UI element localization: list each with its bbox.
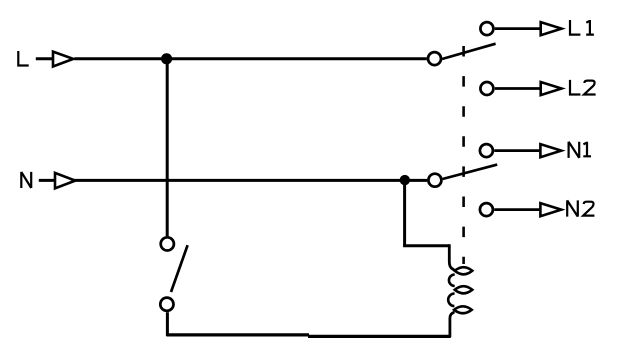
- relay contact RL-B blade: [443, 165, 498, 179]
- input arrow N: [55, 173, 75, 189]
- wire L1: [495, 27, 540, 30]
- switch S1 bottom contact circle: [160, 298, 173, 311]
- relay coil K1 loop 3: [454, 306, 472, 313]
- label N2: [567, 200, 594, 216]
- relay coil K1 link arc 2: [448, 293, 454, 306]
- wire N2: [494, 208, 539, 211]
- switch S1 top contact circle: [161, 237, 174, 250]
- mechanical linkage dashed line: [462, 46, 465, 264]
- wire bottom return left segment: [166, 333, 309, 336]
- wire vertical from L junction to switch S1: [166, 59, 169, 236]
- output arrow N1: [540, 144, 561, 157]
- output arrow L1: [541, 22, 562, 35]
- wire vertical from N junction down: [403, 180, 406, 246]
- wire bottom return right segment: [308, 335, 451, 338]
- relay contact RL-A blade: [442, 44, 496, 59]
- relay coil K1 link arc 1: [449, 275, 455, 287]
- relay coil K1 loop 1: [455, 267, 473, 274]
- output arrow N2: [540, 203, 561, 216]
- label L2: [570, 80, 596, 95]
- wire horizontal to relay coil: [403, 244, 449, 247]
- contact circle L1: [480, 22, 493, 35]
- output arrow L2: [541, 82, 562, 95]
- relay coil K1 loop 2: [455, 286, 473, 293]
- label N (input net N): [21, 172, 31, 188]
- contact circle N1: [480, 144, 493, 157]
- relay contact RL-B common circle: [428, 174, 441, 187]
- input arrow L: [53, 52, 73, 67]
- label N1: [569, 142, 591, 158]
- wire L2: [495, 87, 540, 90]
- wire coil top lead: [449, 244, 455, 270]
- wire L input stub: [36, 57, 53, 60]
- junction dot on N wire: [400, 175, 410, 185]
- label L1: [570, 20, 594, 35]
- wire L horizontal: [74, 57, 427, 60]
- wire N1: [494, 149, 539, 152]
- relay contact RL-A common circle: [428, 52, 441, 65]
- switch S1 blade: [171, 245, 188, 292]
- label L (input net L): [18, 51, 28, 66]
- contact circle L2: [480, 82, 493, 95]
- junction dot on L wire: [161, 53, 172, 64]
- wire N horizontal: [74, 179, 427, 182]
- contact circle N2: [480, 203, 493, 216]
- wire N input stub: [39, 179, 55, 182]
- wire coil bottom lead: [450, 312, 454, 337]
- wire stub below switch S1: [166, 312, 169, 336]
